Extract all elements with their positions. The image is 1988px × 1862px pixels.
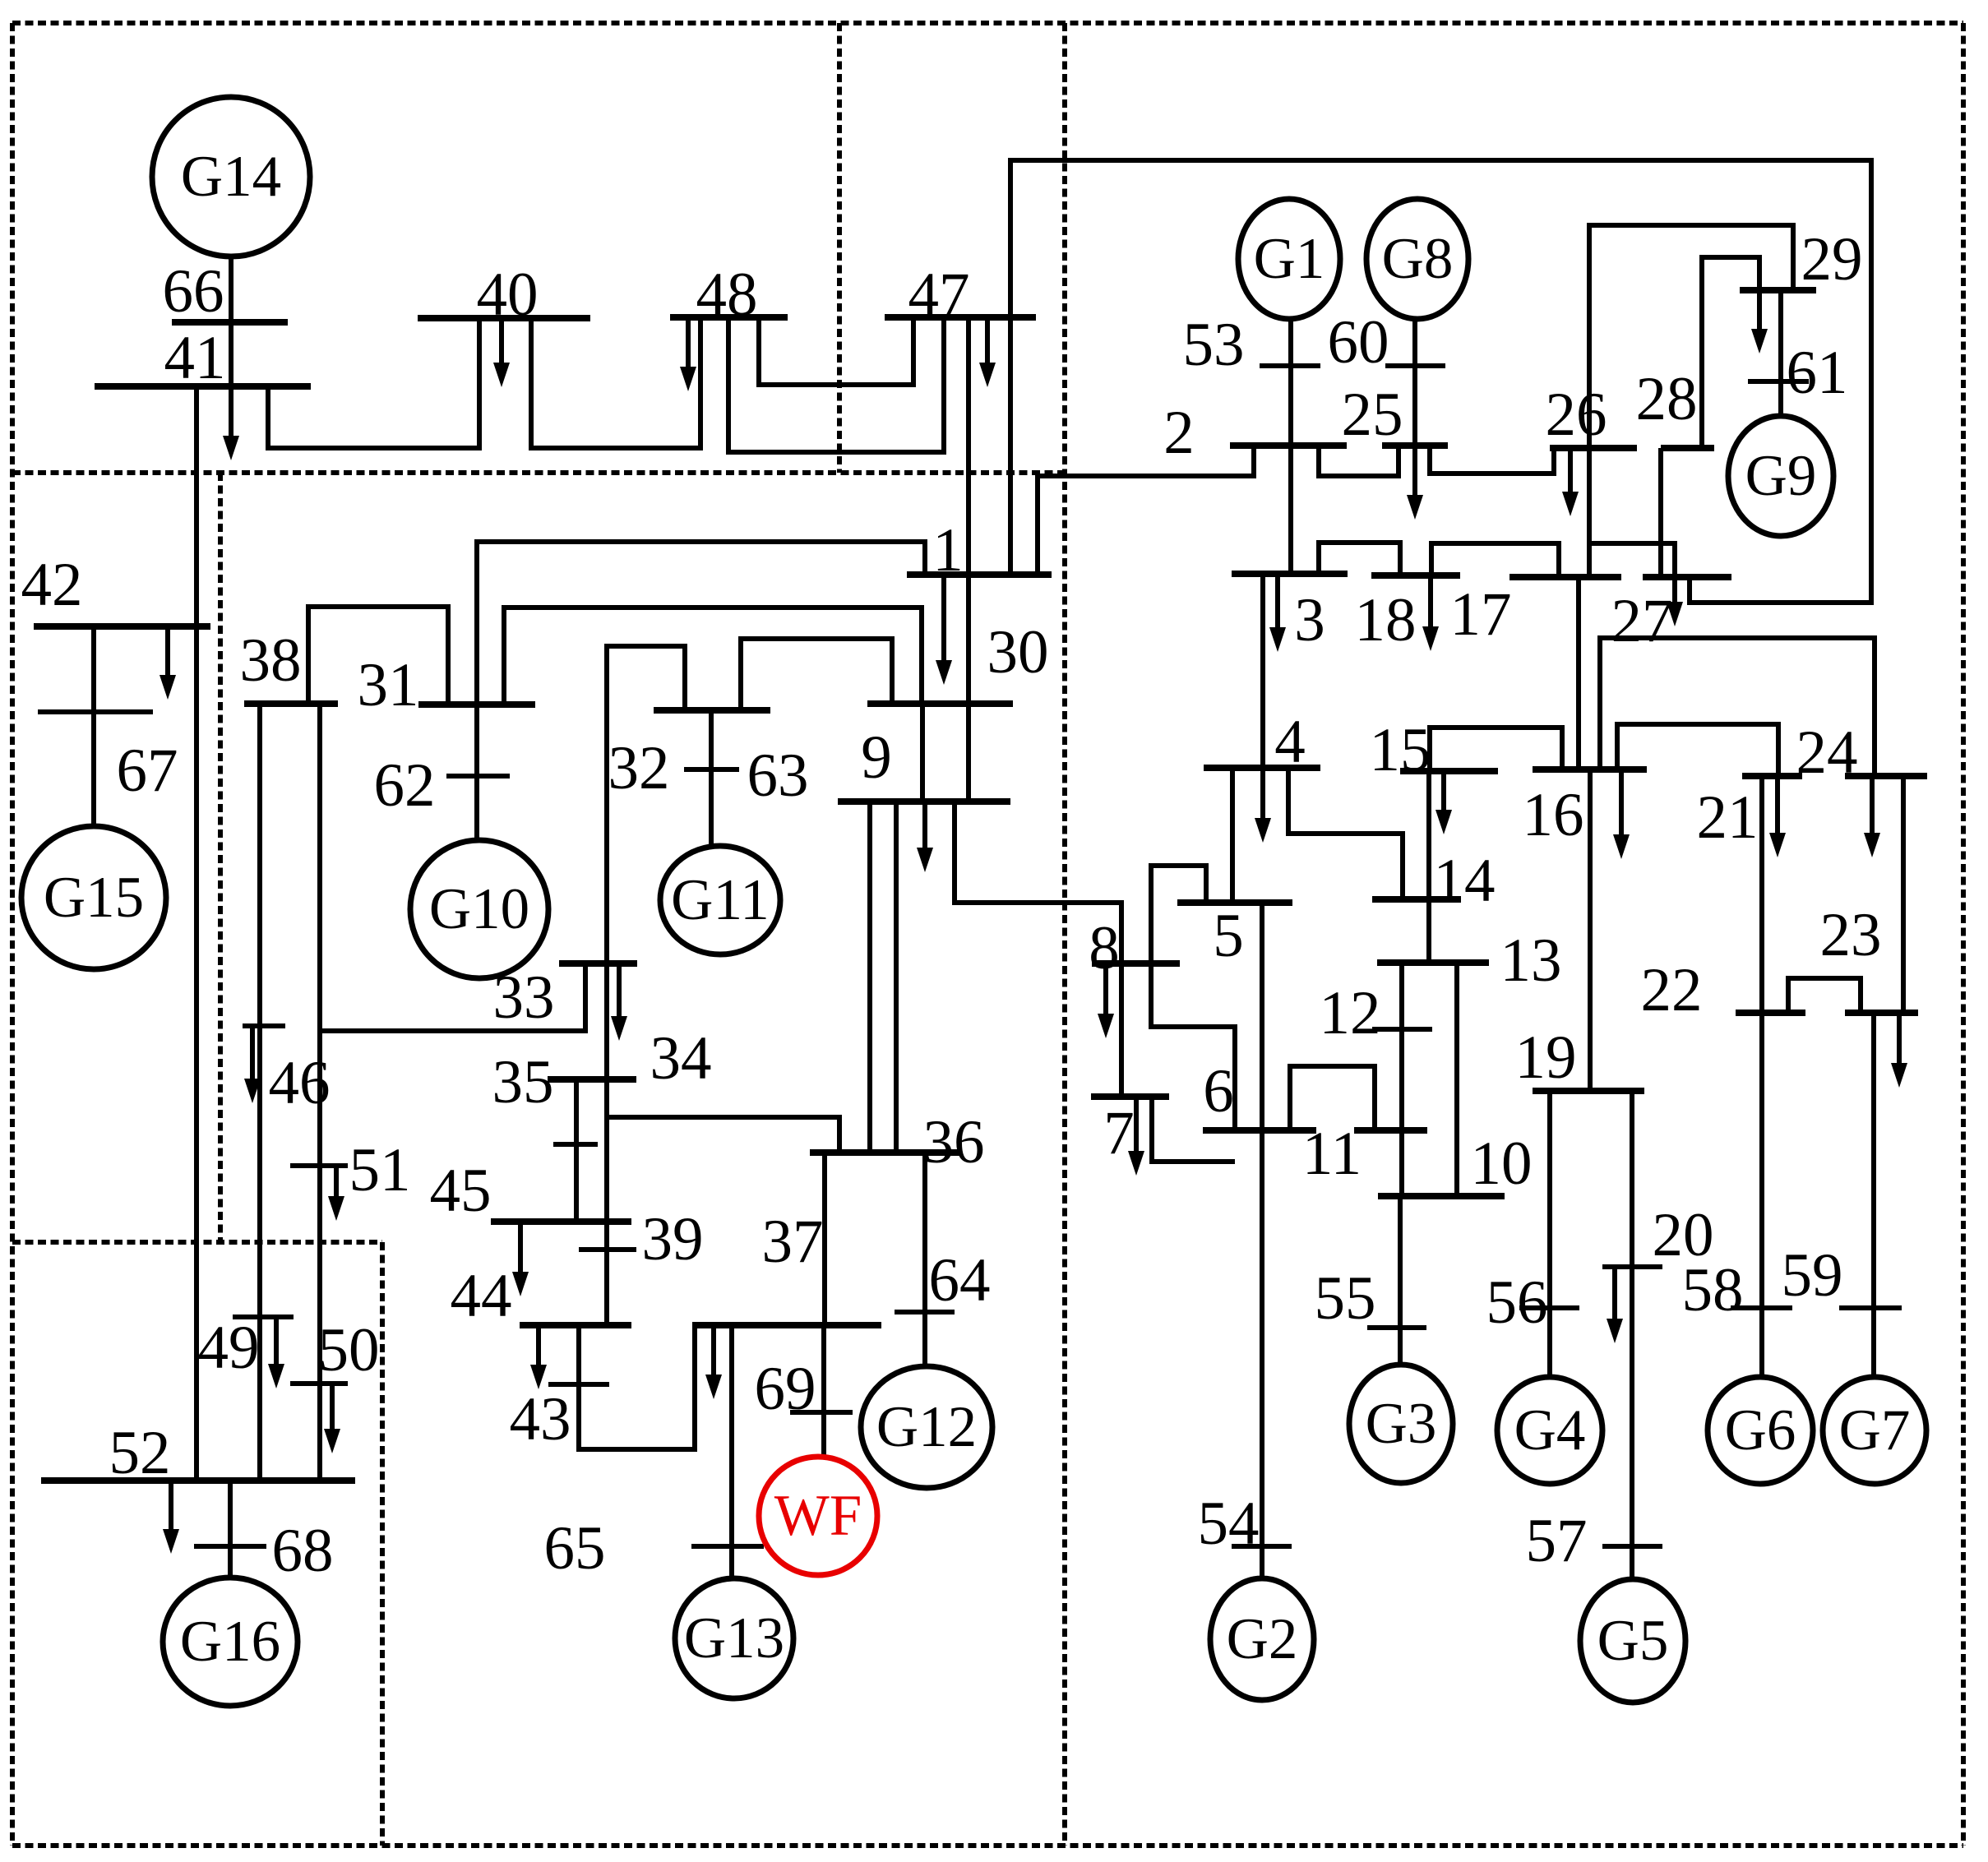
svg-text:66: 66: [163, 257, 224, 326]
bus 9: [838, 798, 1010, 805]
wire 9-8-7: [955, 802, 1121, 1097]
bus 38: [244, 700, 338, 707]
bus 49: [233, 1314, 294, 1319]
bus 41: [95, 383, 311, 390]
wire 17-27: [1589, 543, 1675, 577]
svg-text:37: 37: [762, 1208, 824, 1276]
bus 20: [1602, 1264, 1662, 1269]
generator G3: [1349, 1365, 1453, 1483]
svg-text:G14: G14: [181, 145, 281, 209]
wire 5-6-54-G2: [1260, 903, 1264, 1579]
wire 23-59-G7: [1871, 1013, 1876, 1378]
svg-text:WF: WF: [774, 1484, 862, 1548]
svg-text:69: 69: [755, 1355, 816, 1423]
bus 22: [1736, 1010, 1805, 1016]
svg-text:27: 27: [1611, 587, 1673, 655]
load arrow bus 23: [1891, 1013, 1907, 1088]
generator G14: [152, 97, 310, 256]
svg-text:3: 3: [1294, 586, 1325, 654]
load arrow bus 46: [244, 1026, 261, 1103]
svg-text:51: 51: [349, 1136, 411, 1204]
wire 32-63-G11: [709, 710, 714, 847]
load arrow bus 29: [1751, 290, 1768, 353]
svg-text:5: 5: [1213, 902, 1244, 970]
load arrow bus 52: [163, 1481, 179, 1554]
bus 45: [491, 1218, 631, 1225]
svg-text:59: 59: [1782, 1241, 1843, 1310]
svg-text:43: 43: [510, 1385, 571, 1453]
svg-text:G12: G12: [876, 1395, 977, 1459]
bus 67: [38, 709, 153, 714]
svg-text:32: 32: [608, 734, 670, 802]
svg-text:55: 55: [1315, 1264, 1376, 1333]
wire 10-13: [1454, 963, 1459, 1196]
load arrow bus 9: [917, 802, 933, 872]
bus 17: [1509, 574, 1621, 580]
svg-text:G10: G10: [429, 877, 529, 941]
load arrow bus 20: [1607, 1267, 1623, 1343]
svg-text:46: 46: [269, 1049, 331, 1117]
generator G11: [660, 846, 780, 954]
load arrow bus 48: [680, 317, 696, 391]
bus 62: [446, 774, 510, 779]
load arrow bus 50: [324, 1384, 340, 1453]
bus 56: [1519, 1305, 1579, 1310]
svg-text:58: 58: [1682, 1256, 1744, 1324]
dashed boundary x268: [218, 473, 223, 1242]
svg-text:42: 42: [21, 551, 83, 619]
svg-text:2: 2: [1163, 399, 1195, 467]
load arrow bus 24: [1864, 776, 1880, 857]
bus 68: [194, 1544, 266, 1549]
bus 50: [290, 1381, 348, 1386]
svg-text:67: 67: [117, 737, 178, 805]
wire 1-2: [1038, 446, 1254, 575]
wire 5-6 via 8: [1151, 866, 1235, 1130]
svg-text:1: 1: [932, 516, 964, 584]
bus 16: [1533, 766, 1647, 773]
bus 28: [1661, 445, 1714, 451]
svg-text:38: 38: [240, 626, 302, 695]
wire 35-45: [574, 1079, 579, 1222]
svg-text:G2: G2: [1227, 1607, 1298, 1671]
dashed boundary y1511: [12, 1240, 382, 1245]
bus 30: [867, 700, 1013, 707]
wire 22-23: [1788, 978, 1861, 1013]
svg-text:63: 63: [747, 742, 809, 810]
bus 65: [691, 1544, 764, 1549]
wire 41-40: [268, 318, 479, 448]
svg-text:44: 44: [451, 1262, 512, 1330]
load arrow bus 37: [705, 1325, 722, 1399]
wire 3-18 hop: [1319, 543, 1400, 575]
wire 38-31: [308, 607, 448, 705]
svg-text:33: 33: [493, 963, 555, 1032]
generator G4: [1497, 1377, 1602, 1484]
generator WF: [759, 1457, 877, 1575]
bus 8: [1092, 960, 1180, 967]
generator G1: [1238, 199, 1340, 319]
generator G2: [1210, 1578, 1314, 1700]
bus 21: [1742, 773, 1802, 779]
svg-text:65: 65: [544, 1514, 606, 1582]
load arrow bus 8: [1098, 963, 1114, 1038]
dashed area boundary left: [10, 23, 15, 1846]
bus 42: [34, 623, 210, 630]
bus 48: [670, 314, 788, 321]
wire 30-9: [920, 704, 925, 802]
load arrow bus 51: [328, 1166, 344, 1221]
svg-text:7: 7: [1103, 1099, 1135, 1167]
wire 2-25: [1319, 446, 1399, 476]
bus 32: [654, 707, 770, 714]
svg-text:13: 13: [1500, 926, 1562, 995]
svg-text:50: 50: [318, 1316, 380, 1384]
bus 66: [172, 319, 288, 326]
load arrow bus 41: [223, 386, 239, 460]
generator G6: [1708, 1377, 1813, 1484]
wire 33 to 38-51 line: [321, 963, 585, 1031]
svg-text:40: 40: [477, 261, 539, 329]
load arrow bus 4: [1255, 768, 1271, 843]
svg-text:19: 19: [1515, 1023, 1577, 1092]
bus 13: [1377, 959, 1489, 966]
svg-text:35: 35: [492, 1048, 554, 1116]
load arrow bus 21: [1769, 776, 1786, 857]
svg-text:G3: G3: [1366, 1392, 1437, 1456]
bus 33: [559, 960, 637, 967]
bus 18: [1371, 572, 1460, 579]
wire 9-36 circuit 1: [867, 802, 872, 1153]
wire 37-65-G13: [729, 1325, 734, 1579]
svg-text:24: 24: [1796, 718, 1858, 787]
bus 3: [1232, 571, 1348, 577]
wire 16-19: [1588, 769, 1593, 1091]
wire G14 to bus 66/41: [229, 256, 233, 421]
wire 38-51-50-52: [317, 704, 322, 1481]
load arrow bus 3: [1269, 574, 1286, 652]
svg-text:68: 68: [272, 1517, 334, 1585]
bus 69: [790, 1410, 853, 1415]
load arrow bus 18: [1422, 575, 1439, 651]
wire 48-47 circuit 2: [728, 317, 944, 452]
svg-text:60: 60: [1328, 308, 1389, 377]
generator G10: [410, 840, 548, 978]
dashed boundary x465: [380, 1242, 385, 1846]
svg-text:61: 61: [1787, 339, 1848, 407]
svg-text:30: 30: [987, 618, 1049, 686]
bus 12: [1372, 1027, 1432, 1032]
wire 29-61-G9: [1778, 290, 1783, 417]
bus 10: [1378, 1193, 1505, 1199]
bus 14: [1372, 896, 1461, 903]
wire 32-33-35-45-44: [607, 646, 685, 1325]
svg-text:34: 34: [650, 1024, 712, 1093]
svg-text:G9: G9: [1745, 444, 1817, 508]
wire G1-53-2-3: [1288, 318, 1293, 574]
load arrow bus 49: [268, 1317, 284, 1388]
dashed boundary y575: [12, 470, 1065, 475]
load arrow bus 26: [1562, 448, 1579, 516]
dashed boundary x1295: [1062, 23, 1067, 1846]
transformer tick 35-45: [553, 1142, 598, 1147]
load arrow bus 40: [493, 318, 510, 387]
wire 16-21: [1617, 724, 1778, 776]
generator G9: [1728, 416, 1833, 536]
svg-text:18: 18: [1355, 586, 1417, 654]
svg-text:G16: G16: [180, 1610, 280, 1674]
wire 6-7: [1152, 1097, 1235, 1162]
dashed boundary x1021: [837, 23, 842, 473]
bus 59: [1839, 1305, 1902, 1310]
wire 25-26: [1430, 446, 1554, 474]
wire 6-11: [1290, 1066, 1375, 1130]
wire 38-46-49-52: [257, 704, 262, 1481]
svg-text:22: 22: [1641, 956, 1703, 1024]
wire 36-37: [822, 1153, 827, 1325]
wire 15-14-13: [1426, 771, 1431, 963]
generator G7: [1823, 1377, 1926, 1484]
wire 34-36: [607, 1117, 839, 1153]
svg-text:4: 4: [1274, 708, 1306, 776]
svg-text:23: 23: [1820, 901, 1882, 969]
wire 19-56-G4: [1547, 1091, 1552, 1378]
bus 27: [1643, 574, 1731, 580]
bus 29: [1740, 287, 1816, 293]
svg-text:53: 53: [1183, 311, 1245, 379]
svg-text:21: 21: [1697, 783, 1759, 852]
bus 43: [548, 1382, 609, 1387]
svg-text:62: 62: [374, 751, 436, 820]
bus 1: [907, 571, 1052, 578]
svg-text:49: 49: [198, 1314, 260, 1382]
svg-text:54: 54: [1198, 1490, 1260, 1558]
bus 2: [1230, 442, 1347, 449]
svg-text:64: 64: [929, 1246, 991, 1314]
wire 21-22-58-G6: [1759, 776, 1764, 1378]
wire 9-36 circuit 2: [894, 802, 899, 1153]
svg-text:12: 12: [1320, 979, 1381, 1047]
bus 34/35: [548, 1076, 636, 1083]
wire 52-68-G16: [228, 1481, 233, 1578]
wire 19-20-57-G5: [1630, 1091, 1634, 1580]
svg-text:G8: G8: [1382, 227, 1454, 291]
wire 4-5: [1230, 768, 1235, 903]
svg-text:G1: G1: [1254, 227, 1325, 291]
bus 6: [1203, 1127, 1316, 1134]
bus 53: [1260, 363, 1320, 368]
bus 7: [1091, 1093, 1169, 1100]
bus 64: [895, 1310, 955, 1314]
bus 23: [1845, 1010, 1918, 1016]
bus 31: [418, 701, 535, 708]
wire G10-62-31-1: [477, 542, 925, 840]
wire 48-47 circuit 1: [759, 317, 913, 385]
svg-text:39: 39: [642, 1205, 704, 1273]
wire 40-48: [531, 317, 700, 448]
wire 13-12-11-10: [1399, 963, 1404, 1196]
wire 30-32: [741, 639, 892, 710]
bus 44: [520, 1322, 631, 1328]
bus 55: [1367, 1325, 1426, 1330]
svg-text:16: 16: [1523, 781, 1584, 849]
bus 60: [1385, 363, 1445, 368]
bus 54: [1232, 1544, 1292, 1549]
wire 4-14: [1288, 768, 1403, 899]
wire 23-24: [1901, 776, 1906, 1013]
bus 11: [1354, 1127, 1427, 1134]
wire 42-67-G15: [91, 626, 96, 827]
svg-text:28: 28: [1636, 365, 1698, 433]
wire G8-60-25: [1412, 318, 1417, 446]
svg-text:G4: G4: [1514, 1398, 1586, 1462]
svg-text:57: 57: [1526, 1507, 1588, 1575]
generator G12: [861, 1366, 992, 1488]
wire 10-55-G3: [1398, 1196, 1403, 1365]
wire 43-37: [579, 1325, 695, 1449]
bus 57: [1602, 1544, 1662, 1549]
svg-text:41: 41: [164, 324, 226, 392]
wire 3-4: [1260, 574, 1265, 768]
svg-text:48: 48: [696, 261, 758, 329]
svg-text:G13: G13: [684, 1606, 784, 1670]
wire 16-17: [1576, 577, 1581, 771]
wire 37-69-WF: [821, 1325, 826, 1458]
bus 46: [243, 1023, 285, 1028]
svg-text:G6: G6: [1725, 1398, 1796, 1462]
load arrow bus 45: [512, 1222, 529, 1296]
wire 31-30: [504, 608, 922, 705]
generator G15: [21, 826, 166, 969]
bus 63: [684, 767, 739, 772]
svg-text:56: 56: [1486, 1268, 1548, 1337]
wire bus 41 to bus 52: [194, 386, 199, 1481]
svg-text:G7: G7: [1839, 1398, 1911, 1462]
bus 24: [1845, 773, 1927, 779]
generator G13: [675, 1578, 793, 1698]
dashed area boundary bottom: [12, 1843, 1963, 1848]
svg-text:G15: G15: [44, 866, 144, 930]
svg-text:10: 10: [1471, 1130, 1533, 1198]
svg-text:9: 9: [861, 723, 892, 792]
bus 25: [1382, 442, 1448, 449]
bus 19: [1533, 1088, 1644, 1094]
wire 36-64-G12: [922, 1153, 927, 1367]
load arrow bus 7: [1128, 1097, 1144, 1176]
bus 39: [579, 1247, 636, 1252]
svg-text:15: 15: [1370, 716, 1431, 784]
generator G16: [163, 1578, 298, 1706]
svg-text:52: 52: [109, 1419, 171, 1487]
wire 16-24: [1600, 638, 1875, 776]
dashed area boundary right: [1961, 23, 1966, 1846]
wire 28-29: [1702, 257, 1759, 448]
bus 52: [41, 1477, 355, 1484]
wire long tie 1-27: [1010, 160, 1871, 603]
load arrow bus 42: [160, 626, 176, 700]
load arrow bus 1: [936, 575, 952, 685]
load arrow bus 15: [1436, 771, 1452, 834]
svg-text:31: 31: [358, 651, 419, 719]
load arrow bus 27: [1667, 577, 1683, 626]
svg-text:G5: G5: [1597, 1609, 1669, 1673]
bus 15: [1400, 768, 1498, 774]
bus 51: [290, 1163, 348, 1168]
bus 36: [810, 1149, 962, 1156]
svg-text:6: 6: [1203, 1057, 1234, 1125]
bus 40: [418, 315, 590, 321]
load arrow bus 16: [1613, 769, 1630, 859]
bus 5: [1177, 899, 1292, 906]
bus 47: [885, 314, 1036, 321]
svg-text:47: 47: [908, 261, 970, 329]
wire bus 47 down to bus 9: [966, 317, 971, 802]
bus 58: [1731, 1305, 1792, 1310]
load arrow bus 33: [611, 963, 627, 1041]
svg-text:26: 26: [1546, 381, 1607, 449]
svg-text:45: 45: [430, 1157, 492, 1225]
load arrow bus 44: [530, 1325, 547, 1389]
load arrow bus 47: [979, 317, 996, 387]
svg-text:36: 36: [923, 1108, 985, 1176]
svg-text:29: 29: [1801, 225, 1863, 293]
dashed area boundary top: [12, 21, 1963, 25]
svg-text:17: 17: [1450, 580, 1512, 649]
bus 26: [1550, 445, 1637, 451]
generator G8: [1366, 199, 1468, 319]
bus 37: [692, 1322, 881, 1328]
wire 18-17 hop: [1431, 543, 1559, 577]
bus 4: [1204, 765, 1320, 771]
wire 15-16: [1430, 728, 1562, 771]
wire 28-27: [1658, 448, 1663, 577]
svg-text:25: 25: [1342, 381, 1403, 449]
bus 61: [1748, 379, 1809, 384]
wire 26-29: [1589, 225, 1793, 577]
svg-text:14: 14: [1434, 847, 1496, 915]
svg-text:G11: G11: [671, 868, 770, 932]
generator G5: [1580, 1579, 1685, 1703]
load arrow bus 25: [1407, 446, 1423, 520]
